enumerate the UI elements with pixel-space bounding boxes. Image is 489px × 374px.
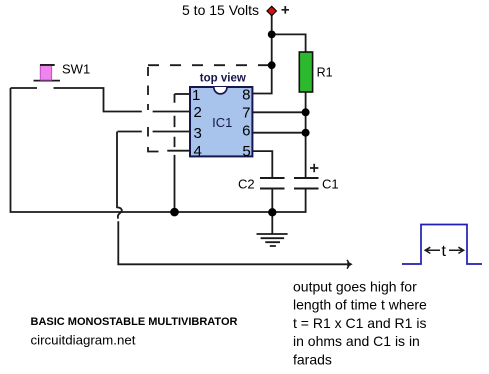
svg-text:1: 1 xyxy=(192,87,200,104)
svg-text:2: 2 xyxy=(194,104,202,121)
svg-text:3: 3 xyxy=(194,125,202,142)
svg-text:C1: C1 xyxy=(322,176,339,191)
svg-text:circuitdiagram.net: circuitdiagram.net xyxy=(31,333,136,348)
svg-text:in ohms and C1 is in: in ohms and C1 is in xyxy=(293,333,420,349)
svg-text:BASIC MONOSTABLE MULTIVIBRATOR: BASIC MONOSTABLE MULTIVIBRATOR xyxy=(31,316,238,328)
svg-text:7: 7 xyxy=(242,105,250,122)
svg-text:IC1: IC1 xyxy=(212,115,232,130)
svg-text:t: t xyxy=(442,243,447,260)
svg-text:C2: C2 xyxy=(238,176,255,191)
svg-text:output goes high for: output goes high for xyxy=(293,279,417,295)
svg-text:SW1: SW1 xyxy=(62,61,90,76)
svg-text:5: 5 xyxy=(242,143,250,160)
svg-text:6: 6 xyxy=(242,123,250,140)
svg-text:4: 4 xyxy=(194,143,202,160)
svg-text:5 to 15 Volts: 5 to 15 Volts xyxy=(182,2,259,18)
svg-text:top view: top view xyxy=(200,73,246,85)
svg-text:length of time t where: length of time t where xyxy=(293,297,427,313)
svg-text:8: 8 xyxy=(242,86,250,103)
svg-text:R1: R1 xyxy=(317,66,333,80)
svg-text:farads: farads xyxy=(293,351,332,367)
svg-text:t = R1 x C1 and R1 is: t = R1 x C1 and R1 is xyxy=(293,315,426,331)
